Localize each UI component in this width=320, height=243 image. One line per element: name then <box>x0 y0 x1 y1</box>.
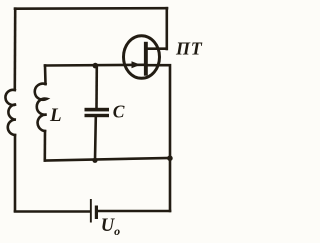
capacitor C lead, bottom <box>94 117 97 160</box>
inductor L <box>35 84 47 131</box>
svg-text:ПТ: ПТ <box>175 39 203 59</box>
transistor ПТ channel bar <box>144 42 148 76</box>
junction node: tank bottom / source rail <box>167 155 173 161</box>
transistor ПТ drain lead <box>146 47 168 50</box>
wire: bottom rail, right of battery <box>98 210 170 213</box>
wire: tank bottom rail <box>45 158 170 161</box>
capacitor C lead, top <box>95 66 98 108</box>
transistor ПТ (JFET, circle envelope) <box>124 36 160 79</box>
wire: outer right, upper segment (top rail to drain) <box>166 8 169 49</box>
svg-text:Uo: Uo <box>101 216 120 238</box>
wire: bottom rail, left of battery <box>15 210 90 213</box>
capacitor C plates <box>85 108 110 117</box>
wire: tank top rail / gate lead <box>45 64 145 67</box>
wire: source lead down to bottom rail <box>148 65 170 211</box>
wire: tank left branch, lower segment <box>43 131 46 161</box>
junction node: capacitor bottom / tank bottom rail <box>92 158 97 163</box>
wire: tank left branch, upper segment <box>44 66 47 85</box>
battery U0 (plates) <box>90 199 98 223</box>
svg-text:L: L <box>49 105 62 126</box>
transistor ПТ gate arrow <box>132 61 141 68</box>
svg-text:C: C <box>113 101 125 121</box>
wire: outer left, upper segment <box>14 9 17 90</box>
wire: outer top rail <box>15 7 167 10</box>
wire: outer left, lower segment <box>14 135 17 211</box>
junction node: tank top / gate <box>93 63 99 69</box>
inductor (coupling coil, left branch) <box>5 90 16 135</box>
